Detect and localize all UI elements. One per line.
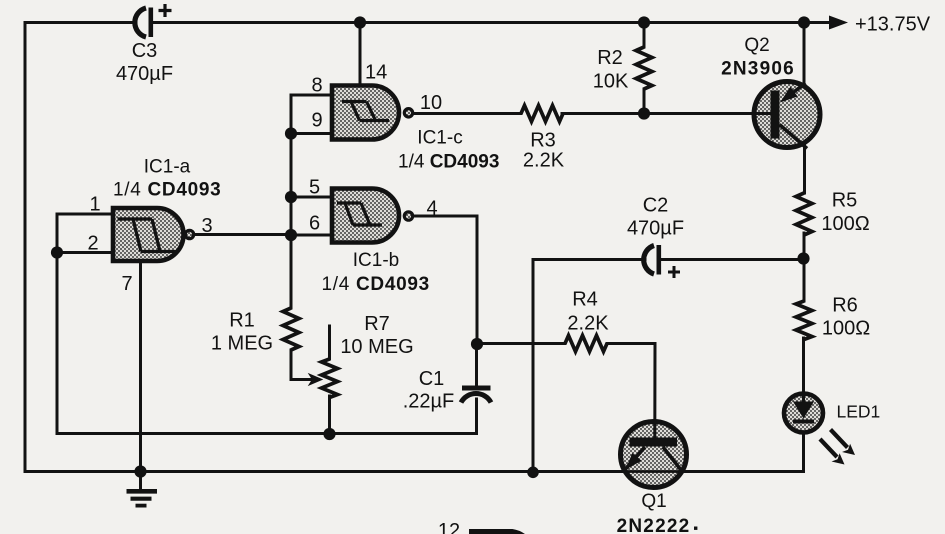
node: rail junction at Q2 emitter	[798, 16, 810, 28]
wire R7 bottom to feedback rail	[328, 396, 331, 434]
node: ground tie	[134, 465, 146, 477]
wire R2 top	[643, 23, 646, 48]
resistor R6 100 ohm	[796, 301, 812, 340]
NAND gate IC1-b	[332, 189, 413, 243]
NAND gate IC1-a	[113, 208, 194, 261]
svg-text:8: 8	[312, 75, 323, 97]
svg-text:470µF: 470µF	[627, 218, 684, 240]
svg-text:IC1-a: IC1-a	[144, 157, 191, 178]
wire Q2 emitter from rail	[803, 23, 806, 85]
svg-text:1/4 CD4093: 1/4 CD4093	[113, 180, 221, 201]
svg-text:5: 5	[309, 177, 320, 199]
wire IC1-b pin 5	[291, 196, 332, 199]
capacitor C3 470uF	[135, 4, 172, 37]
svg-text:R3: R3	[530, 130, 556, 152]
resistor R2 10K	[636, 47, 652, 89]
wire IC1-a output pin 3	[194, 233, 291, 236]
svg-text:1 MEG: 1 MEG	[211, 333, 273, 355]
wire IC1-a pin 2	[57, 251, 113, 254]
wire R2 bottom to node	[643, 89, 646, 114]
wire Q2 collector to R5	[803, 146, 806, 193]
wire C2 left plate to Q1 emitter node	[533, 260, 645, 472]
wire R3 to Q2 base	[562, 112, 770, 115]
node: R2 R3 Q2 base	[638, 107, 650, 119]
wire feedback rail y=433	[57, 432, 477, 435]
wire IC1-b pin 4 output	[413, 216, 477, 344]
node: R7 bottom	[323, 428, 335, 440]
svg-text:IC1-c: IC1-c	[417, 128, 462, 149]
svg-text:6: 6	[309, 213, 320, 235]
wire IC1-a pin 7 to ground	[139, 261, 142, 472]
wire IC1-c pin 14 from rail	[359, 23, 362, 86]
svg-text:10K: 10K	[593, 71, 629, 93]
wire R4 to Q1 base	[607, 344, 655, 438]
LED1 emission arrows	[820, 430, 855, 465]
svg-text:+13.75V: +13.75V	[855, 14, 931, 36]
wire bottom ground rail	[25, 470, 804, 473]
node: pin6 pin3 tie	[285, 229, 297, 241]
svg-text:C3: C3	[132, 40, 158, 62]
artifact dot after 2N2222	[694, 527, 697, 530]
wire C1 top	[475, 344, 478, 388]
svg-text:.22µF: .22µF	[403, 391, 455, 413]
svg-text:R5: R5	[832, 190, 858, 212]
svg-text:10 MEG: 10 MEG	[340, 336, 413, 358]
wire R1 top from common node	[290, 235, 293, 308]
svg-text:C2: C2	[643, 195, 669, 217]
wire common node vertical x=291	[290, 95, 293, 308]
svg-text:2.2K: 2.2K	[567, 313, 609, 335]
resistor R5 100 ohm	[796, 193, 812, 235]
capacitor C1 .22uF	[461, 386, 491, 403]
wire R5 to R6	[803, 233, 806, 301]
svg-text:4: 4	[427, 198, 438, 220]
wire IC1-c pin 8	[291, 94, 332, 97]
wire C2 right plate to R5 R6 node	[660, 258, 804, 261]
NAND gate IC1-d partial top edge	[469, 532, 524, 534]
svg-text:14: 14	[365, 62, 387, 84]
wire IC1-c pin 9	[291, 132, 332, 135]
wire top supply rail left of C3	[25, 21, 136, 24]
resistor R1 1 MEG	[283, 308, 299, 350]
svg-text:LED1: LED1	[837, 402, 881, 422]
wire R6 to LED1	[802, 338, 805, 401]
wire IC1-a pin 1	[57, 213, 113, 216]
NAND gate IC1-c	[332, 86, 413, 140]
svg-text:100Ω: 100Ω	[822, 318, 870, 340]
wire R1 bottom to wiper arrow	[291, 350, 316, 380]
svg-text:100Ω: 100Ω	[821, 213, 869, 235]
svg-text:1/4 CD4093: 1/4 CD4093	[398, 152, 499, 173]
node: pin5 tie	[285, 191, 297, 203]
potentiometer R7 wiper arrow	[309, 374, 322, 385]
wire node to R4	[477, 342, 565, 345]
svg-text:9: 9	[312, 110, 323, 132]
wire R7 top stub	[328, 326, 331, 359]
wire IC1-c output pin 10 to R3	[413, 112, 521, 115]
svg-text:10: 10	[420, 92, 442, 114]
svg-text:R7: R7	[364, 313, 390, 335]
svg-text:2: 2	[88, 233, 99, 255]
node: C2 R5 R6	[797, 252, 809, 264]
resistor R3 2.2K	[521, 106, 563, 122]
ground symbol	[127, 472, 158, 506]
svg-text:R6: R6	[832, 295, 858, 317]
capacitor C2 470uF	[644, 245, 680, 278]
supply arrow +13.75V	[829, 16, 848, 30]
svg-text:C1: C1	[419, 368, 445, 390]
node: pin4 C1 R4	[471, 338, 483, 350]
svg-text:2.2K: 2.2K	[523, 150, 565, 172]
resistor R4 2.2K	[565, 336, 607, 352]
transistor Q1 2N2222	[619, 420, 689, 488]
wire top supply rail right of C3	[152, 21, 831, 24]
svg-text:2N2222: 2N2222	[617, 516, 691, 534]
wire C1 bottom to feedback rail	[475, 399, 478, 434]
wire IC1-b pin 6	[291, 234, 332, 237]
transistor Q2 2N3906	[754, 82, 820, 149]
svg-text:7: 7	[122, 273, 133, 295]
svg-text:1/4 CD4093: 1/4 CD4093	[322, 274, 430, 295]
node: rail junction at pin14	[354, 16, 366, 28]
svg-text:R4: R4	[572, 289, 598, 311]
svg-text:1: 1	[90, 194, 101, 216]
svg-text:3: 3	[202, 215, 213, 237]
svg-text:12: 12	[438, 520, 460, 534]
node: C2 Q1 emitter tie	[527, 467, 539, 479]
node: rail junction at R2	[638, 16, 650, 28]
svg-text:470µF: 470µF	[116, 63, 173, 85]
svg-text:R1: R1	[229, 310, 255, 332]
svg-text:2N3906: 2N3906	[721, 59, 795, 80]
svg-text:Q1: Q1	[641, 491, 666, 512]
wire LED1 cathode to ground rail	[802, 423, 805, 472]
wire left edge vertical	[24, 23, 27, 472]
node: pin9 tie	[285, 127, 297, 139]
svg-text:IC1-b: IC1-b	[353, 250, 399, 271]
svg-text:Q2: Q2	[744, 35, 769, 56]
wire inner-left vertical pins 1-2	[56, 214, 59, 434]
svg-text:R2: R2	[597, 47, 623, 69]
node: IC1-a pin2 tie	[51, 246, 63, 258]
potentiometer R7 10 MEG	[322, 359, 338, 398]
LED1	[784, 390, 823, 433]
